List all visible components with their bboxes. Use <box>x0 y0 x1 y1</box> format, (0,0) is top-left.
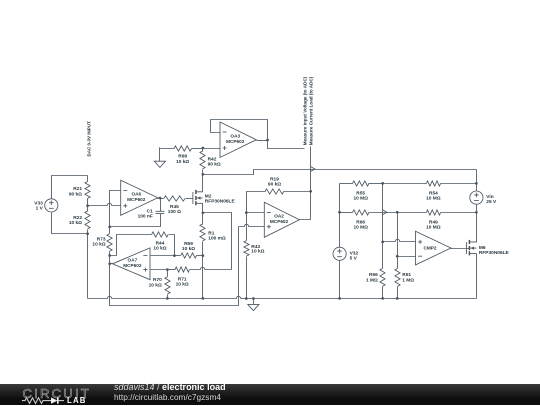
node F OA7 minus junction <box>173 254 176 257</box>
svg-text:1 MΩ: 1 MΩ <box>366 277 378 283</box>
wire M2 source <box>202 204 204 213</box>
wire OA6 + input <box>88 203 121 205</box>
ground symbol G1 <box>154 148 165 168</box>
svg-text:Measure Input Voltage (to ADC): Measure Input Voltage (to ADC) <box>302 76 307 145</box>
logo resistor squiggle <box>22 398 51 404</box>
node T CMP2 plus junction <box>381 241 384 244</box>
node K OA3 output <box>266 139 269 142</box>
svg-text:DAC 0-3V INPUT: DAC 0-3V INPUT <box>87 121 92 157</box>
resistor R44 <box>110 232 175 256</box>
wire OA2 - input <box>247 212 265 214</box>
node N OA7 plus junction <box>166 268 169 271</box>
transistor M6 <box>466 240 509 256</box>
svg-text:10 MΩ: 10 MΩ <box>426 196 441 202</box>
node rail R1 <box>202 297 205 300</box>
resistor R66 <box>340 210 398 231</box>
svg-text:10 MΩ: 10 MΩ <box>353 225 368 231</box>
svg-text:10 MΩ: 10 MΩ <box>426 225 441 231</box>
node O R49/Vin junction <box>475 211 478 214</box>
node rail R51 <box>396 297 399 300</box>
svg-text:100 Ω: 100 Ω <box>168 209 181 215</box>
svg-text:R56: R56 <box>369 272 378 278</box>
resistor R22 <box>69 206 90 234</box>
svg-text:90 kΩ: 90 kΩ <box>69 191 82 197</box>
resistor R42 <box>200 149 221 175</box>
svg-text:R21: R21 <box>73 186 82 192</box>
wire OA3 output <box>257 140 268 142</box>
svg-text:10 MΩ: 10 MΩ <box>353 196 368 202</box>
svg-text:V33: V33 <box>34 200 43 206</box>
resistor R51 <box>395 257 414 299</box>
ground symbol G2 <box>248 299 259 311</box>
voltage source Vin <box>470 170 497 243</box>
wire Measure Current Load to OA2 output <box>310 147 312 192</box>
svg-text:Measure Current Load (to ADC): Measure Current Load (to ADC) <box>309 76 314 145</box>
wire CMP2 + input <box>383 239 416 241</box>
svg-text:10 kΩ: 10 kΩ <box>251 249 264 255</box>
voltage source V33 <box>34 176 87 234</box>
logo diode <box>51 397 58 403</box>
svg-text:10 kΩ: 10 kΩ <box>176 282 189 288</box>
wire OA6 feedback to - input <box>110 191 121 227</box>
arrow marker on comparator divider <box>383 210 387 215</box>
svg-text:1 MΩ: 1 MΩ <box>402 277 414 283</box>
svg-text:MCP602: MCP602 <box>127 197 146 202</box>
svg-text:R22: R22 <box>73 215 82 221</box>
arrow marker on sense wire <box>311 167 315 172</box>
node rail R56 <box>381 297 384 300</box>
svg-text:100 nF: 100 nF <box>138 214 153 220</box>
svg-text:R73: R73 <box>97 237 106 243</box>
wire shunt sense to Vin <box>203 170 477 175</box>
resistor R49 <box>398 210 477 231</box>
resistor R43 <box>244 213 265 299</box>
svg-text:90 kΩ: 90 kΩ <box>268 182 281 188</box>
label DAC 0-3V INPUT <box>87 121 92 157</box>
svg-text:1 V: 1 V <box>36 206 44 212</box>
capacitor C1 <box>110 199 165 227</box>
node M OA2 minus junction <box>245 211 248 214</box>
node rail R43 <box>245 297 248 300</box>
wire R71 to shunt top <box>203 213 232 270</box>
node G R69/R1 junction <box>202 254 205 257</box>
wire OA3 output to ADC <box>268 141 305 149</box>
wire left column to ground rail <box>87 234 89 299</box>
svg-text:R51: R51 <box>402 272 411 278</box>
op-amp OA6 <box>121 180 158 215</box>
label Measure Current Load (to ADC) <box>309 76 314 145</box>
svg-text:R19: R19 <box>270 176 279 182</box>
node U CMP2 minus junction <box>396 255 399 258</box>
wire M2 drain <box>202 175 204 192</box>
wire M6 source to rail <box>476 254 478 299</box>
ground rail wire <box>88 296 477 298</box>
svg-text:100 mΩ: 100 mΩ <box>208 235 226 241</box>
node J R68/R42/OA3 junction <box>202 147 205 150</box>
wire CMP2 - input <box>398 256 416 258</box>
svg-text:R68: R68 <box>178 154 187 160</box>
svg-text:10 kΩ: 10 kΩ <box>153 246 166 252</box>
op-amp OA7 <box>113 248 151 280</box>
CircuitLab logo resistor and diode glyph <box>22 396 92 406</box>
node R R66 left junction <box>338 211 341 214</box>
resistor R55 <box>340 181 383 202</box>
wire OA2 output <box>300 192 311 220</box>
wire R55 left to V32 <box>339 184 341 248</box>
wire OA7 + input <box>151 269 168 271</box>
resistor R56 <box>366 242 385 299</box>
svg-text:RFP30N06LE: RFP30N06LE <box>479 250 510 256</box>
svg-text:RFP30N06LE: RFP30N06LE <box>205 198 236 204</box>
node H M2 source / R1 top <box>202 211 205 214</box>
node A junction R21/R22/OA6+ <box>86 204 89 207</box>
node Q R54/Vin junction <box>475 182 478 185</box>
wire OA7 output <box>110 263 113 265</box>
svg-text:5 V: 5 V <box>350 256 358 262</box>
svg-text:C1: C1 <box>147 208 153 214</box>
svg-text:R71: R71 <box>178 276 187 282</box>
resistor R73 <box>92 227 112 264</box>
node C feedback junction <box>108 226 111 229</box>
svg-text:MCP602: MCP602 <box>226 139 245 144</box>
svg-text:R49: R49 <box>429 220 438 226</box>
node rail ground stem <box>252 297 255 300</box>
transistor M2 <box>193 190 236 206</box>
wire OA2 + input <box>239 224 265 226</box>
svg-text:10 kΩ: 10 kΩ <box>149 282 162 288</box>
node I R42/M2 drain junction <box>202 173 205 176</box>
resistor R1 current shunt <box>200 213 226 299</box>
node E OA6 output <box>159 197 162 200</box>
footer byline text <box>114 383 226 402</box>
wire CMP2 + column <box>382 184 384 242</box>
svg-text:R54: R54 <box>429 191 438 197</box>
node D OA7 output junction <box>108 262 111 265</box>
footer bar <box>0 384 540 405</box>
node L R19/OA2 output junction <box>309 190 312 193</box>
wire OA7 output to OA2 + input <box>110 227 239 306</box>
svg-text:MCP602: MCP602 <box>123 263 142 268</box>
svg-text:MCP602: MCP602 <box>270 219 289 224</box>
resistor R70 <box>149 270 170 299</box>
wire CMP2 - column <box>397 213 399 257</box>
svg-text:10 kΩ: 10 kΩ <box>182 246 195 252</box>
svg-text:CMP2: CMP2 <box>424 246 437 251</box>
wire OA7 - input <box>151 255 175 257</box>
resistor R69 <box>175 241 203 258</box>
comparator CMP2 <box>416 231 451 265</box>
node B junction V33-/R22 <box>86 232 89 235</box>
resistor R54 <box>383 181 477 202</box>
wire CMP2 output to M6 gate <box>451 248 470 250</box>
resistor R68 <box>160 146 203 165</box>
CircuitLab logo text CIRCUIT <box>23 386 92 401</box>
svg-text:90 kΩ: 90 kΩ <box>208 162 221 168</box>
wire OA6 output node <box>158 198 164 200</box>
svg-text:10 kΩ: 10 kΩ <box>92 242 105 248</box>
wire OA3 + input <box>203 148 221 150</box>
label Measure Input Voltage (to ADC) <box>302 76 307 145</box>
svg-text:R55: R55 <box>356 191 365 197</box>
node rail V32 <box>338 297 341 300</box>
svg-text:R44: R44 <box>156 240 165 246</box>
node S R66/R49 junction <box>396 211 399 214</box>
svg-text:R45: R45 <box>170 204 179 210</box>
wire OA3 feedback loop <box>211 120 268 141</box>
CircuitLab logo text LAB <box>67 396 87 405</box>
svg-text:10 kΩ: 10 kΩ <box>69 220 82 226</box>
resistor R21 <box>69 176 90 206</box>
svg-text:R70: R70 <box>153 277 162 283</box>
svg-text:10 kΩ: 10 kΩ <box>176 159 189 165</box>
op-amp OA3 <box>220 122 256 158</box>
svg-text:R69: R69 <box>184 241 193 247</box>
node P R55/R54 junction <box>381 182 384 185</box>
resistor R71 <box>168 267 232 288</box>
node rail R70 <box>166 297 169 300</box>
op-amp OA2 <box>264 202 299 237</box>
svg-text:R66: R66 <box>356 220 365 226</box>
svg-text:25 V: 25 V <box>486 199 497 205</box>
voltage source V32 <box>333 247 358 298</box>
node R73/OA7-out upper junction <box>108 254 111 257</box>
resistor R19 <box>247 176 311 212</box>
resistor R45 <box>164 196 193 215</box>
